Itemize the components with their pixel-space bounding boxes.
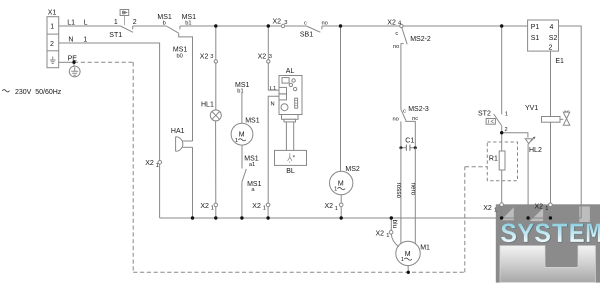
wire X2-1 to bottom rail: [340, 207, 342, 218]
wire AL branch from rail: [267, 26, 269, 60]
node C1 left: [399, 146, 402, 149]
contact MS2-2 blade: [402, 28, 407, 45]
svg-text:1: 1: [494, 207, 497, 213]
thermostat ST2 branch wire: [501, 26, 503, 114]
wire X2-1 to bottom rail: [549, 207, 551, 218]
terminal X2-4 on rail: [400, 24, 403, 27]
svg-text:YV1: YV1: [525, 105, 538, 112]
PE earth electrode: [73, 62, 75, 66]
svg-text:C1: C1: [405, 138, 414, 145]
YV1 valve body: [563, 111, 570, 126]
wire HA1 to bottom rail: [192, 147, 194, 218]
terminal X2-1 HL1 branch: [214, 203, 218, 207]
wire AL N return: [268, 96, 279, 203]
label 230V supply: [2, 90, 9, 92]
wire blu X2-1 to M1: [391, 234, 398, 247]
wire MS2-3 nc branch: [406, 120, 415, 146]
svg-text:3: 3: [269, 54, 272, 60]
wire X2-1 to bottom rail: [267, 207, 269, 218]
svg-text:MS1: MS1: [245, 117, 260, 124]
svg-text:1: 1: [386, 233, 389, 239]
wire R1 to X2-1: [501, 170, 503, 203]
wire MS2-2 to MS2-3: [400, 44, 402, 110]
svg-text:X1: X1: [48, 9, 57, 16]
motor MS2: [330, 171, 353, 194]
terminal block X1: [47, 17, 59, 68]
wire bottom rail: [160, 217, 582, 219]
svg-text:1: 1: [83, 36, 87, 43]
lamp HL1: [210, 110, 221, 121]
node M1 PE: [407, 271, 410, 274]
svg-text:X2: X2: [200, 203, 209, 210]
svg-text:S2: S2: [549, 35, 558, 42]
wire ST2 to node: [501, 127, 503, 133]
svg-text:AL: AL: [286, 68, 295, 75]
svg-text:E1: E1: [555, 58, 564, 65]
node bottom HA1: [191, 216, 194, 219]
svg-text:1: 1: [545, 206, 548, 212]
svg-text:M: M: [338, 181, 344, 188]
watermark triangle 2: [530, 208, 543, 221]
wire E1 4 to right bus: [559, 26, 582, 218]
svg-text:no: no: [322, 20, 328, 26]
R1 dashed enclosure: [487, 142, 517, 181]
terminal X2-1 E1 branch: [549, 203, 553, 207]
svg-text:X2: X2: [145, 160, 154, 167]
wire rail MS1-b1 to X2-3: [180, 25, 282, 27]
wire PE from X1: [59, 61, 74, 63]
svg-text:1: 1: [335, 206, 338, 212]
contact MS2-3 blade: [401, 109, 406, 120]
svg-text:ST1: ST1: [109, 32, 122, 39]
terminal X2-1 M1 branch: [389, 230, 393, 234]
terminal X2-3 on rail: [281, 24, 284, 27]
node PE: [72, 61, 75, 64]
svg-text:b: b: [163, 21, 166, 27]
svg-text:P1: P1: [531, 24, 540, 31]
svg-text:2: 2: [50, 41, 54, 48]
svg-text:no: no: [393, 44, 399, 50]
svg-text:MS2: MS2: [345, 166, 360, 173]
ground symbol in X1 PE cell: [50, 57, 56, 64]
capacitor C1: [401, 147, 406, 149]
node ST2/HL2/R1: [500, 131, 503, 134]
wire MS1-a to bottom rail: [241, 182, 243, 218]
wire node to HL2: [502, 133, 528, 138]
node bottom M1: [390, 216, 393, 219]
watermark big 4 shape: [500, 246, 595, 283]
svg-text:4: 4: [550, 24, 554, 31]
svg-text:M1: M1: [420, 245, 430, 252]
watermark square: [579, 206, 590, 222]
node bottom AL: [266, 216, 269, 219]
wire nero to M1: [414, 148, 416, 244]
svg-text:1: 1: [334, 187, 337, 193]
svg-text:SB1: SB1: [300, 31, 313, 38]
wire X2-1 to bottom rail: [501, 206, 503, 218]
svg-text:HL1: HL1: [201, 102, 214, 109]
svg-text:4: 4: [398, 21, 401, 27]
svg-text:1: 1: [50, 24, 54, 31]
wire MS2 branch from rail: [340, 26, 342, 171]
svg-text:c: c: [304, 21, 307, 27]
solenoid valve YV1 coil: [542, 117, 561, 123]
contact MS1-a1/a blade: [242, 169, 247, 182]
svg-text:N: N: [68, 36, 73, 43]
svg-text:nero: nero: [409, 183, 416, 196]
contact ST2 blade: [494, 114, 503, 127]
thermostat ST2 symbol box: [486, 119, 495, 125]
watermark logo box: [496, 204, 600, 282]
svg-text:S1: S1: [531, 35, 540, 42]
svg-text:MS2-2: MS2-2: [410, 36, 431, 43]
wire HL2 to bottom rail: [527, 144, 529, 218]
wire X2-3 to lamp HL1: [215, 63, 217, 109]
terminal X2-3 HL1 branch: [214, 60, 217, 63]
svg-text:M: M: [405, 251, 411, 258]
contact MS1-b blade: [166, 26, 178, 33]
node rail MS2: [339, 24, 342, 27]
svg-text:MS2-3: MS2-3: [408, 106, 429, 113]
wire YV1 to X2-1: [550, 122, 552, 203]
svg-text:X2: X2: [200, 54, 209, 61]
pushbutton SB1 blade: [306, 26, 320, 32]
burner electrode BL: [275, 150, 307, 165]
svg-text:2: 2: [505, 127, 508, 133]
indicator HL2 symbol: [525, 139, 532, 144]
node bottom HL2: [526, 216, 529, 219]
motor MS1 (timer): [231, 123, 253, 145]
svg-text:X2: X2: [325, 203, 334, 210]
svg-text:X2: X2: [273, 19, 282, 26]
svg-text:1: 1: [505, 112, 508, 118]
node rail HL1: [214, 24, 217, 27]
svg-text:L1: L1: [67, 19, 75, 26]
node bottom MS1: [240, 216, 243, 219]
svg-text:rosso: rosso: [395, 183, 402, 199]
svg-text:X2: X2: [258, 54, 267, 61]
node bottom YV1: [549, 216, 552, 219]
svg-text:X2: X2: [252, 203, 261, 210]
wire rail X2-3 to SB1: [285, 25, 307, 27]
wire HL1 to X2-1: [215, 121, 217, 203]
svg-text:b1: b1: [237, 88, 243, 94]
svg-text:c: c: [403, 108, 406, 114]
svg-text:X2: X2: [535, 203, 544, 210]
svg-text:M: M: [239, 132, 245, 139]
wire AL to BL: [285, 122, 287, 150]
svg-text:1: 1: [211, 206, 214, 212]
wire rosso to M1: [400, 148, 402, 244]
svg-text:c: c: [395, 31, 398, 37]
wire MS1 timer motor feed: [241, 93, 243, 123]
svg-text:ST2: ST2: [478, 110, 491, 117]
watermark triangle 1: [501, 207, 514, 220]
svg-text:b1: b1: [185, 21, 191, 27]
svg-text:HA1: HA1: [171, 128, 185, 135]
svg-text:1: 1: [235, 138, 238, 144]
resistor R1: [499, 151, 505, 170]
svg-text:X2: X2: [376, 230, 385, 237]
svg-text:1: 1: [263, 206, 266, 212]
terminal X2-1 on N wire: [158, 161, 162, 165]
AL plug connector: [282, 115, 299, 120]
svg-text:2: 2: [549, 45, 553, 52]
switch ST1: [120, 10, 129, 16]
svg-text:L1: L1: [270, 86, 276, 92]
wire M1 to PE: [407, 266, 409, 273]
svg-text:3: 3: [284, 20, 287, 26]
svg-text:blu: blu: [391, 220, 398, 229]
node rail ST2: [500, 24, 503, 27]
svg-text:N: N: [271, 102, 275, 108]
svg-text:MS1: MS1: [173, 46, 188, 53]
node bottom MS2: [340, 216, 343, 219]
terminal X2-1 AL branch: [266, 203, 270, 207]
wire MS2 to X2-1: [340, 195, 342, 203]
wire rail ST1 to MS1-b: [133, 25, 167, 27]
svg-text:SYSTEM: SYSTEM: [500, 220, 600, 251]
svg-text:1: 1: [401, 257, 404, 263]
energy regulator E1 box: [528, 20, 559, 51]
svg-text:PE: PE: [68, 55, 78, 62]
wire rail SB1 to X2-4: [322, 25, 400, 27]
wire N from X1: [59, 43, 160, 161]
terminal X2-1 R1 branch: [500, 203, 504, 207]
svg-text:1: 1: [114, 19, 118, 26]
wire N down to bottom rail: [159, 164, 161, 218]
svg-text:L: L: [84, 19, 88, 26]
buzzer HA1: [176, 137, 183, 152]
wire E1 S2/2 down: [550, 51, 552, 116]
svg-text:R1: R1: [489, 156, 498, 163]
wire node to R1: [501, 133, 503, 151]
wire L1 from X1 to ST1: [59, 25, 121, 27]
wire MS2-3 no branch: [400, 121, 402, 146]
YV1 valve link: [560, 118, 563, 120]
svg-text:1: 1: [156, 163, 159, 169]
wire M1 common from bottom rail: [390, 218, 392, 230]
node bottom R1: [500, 216, 503, 219]
svg-text:2: 2: [133, 19, 137, 26]
svg-text:nc: nc: [412, 116, 418, 122]
wire MS1-b0 branch: [179, 33, 193, 141]
terminal X2-1 MS2 branch: [339, 203, 343, 207]
svg-text:X2: X2: [387, 19, 396, 26]
svg-text:BL: BL: [286, 168, 295, 175]
terminal X2-3 AL branch: [267, 60, 270, 63]
ignition module AL: [279, 76, 302, 115]
node rail AL: [267, 24, 270, 27]
wire X2-1 to bottom rail: [215, 207, 217, 218]
svg-text:3: 3: [210, 54, 213, 60]
node bottom HL1: [214, 216, 217, 219]
wire HL1 branch from rail: [215, 26, 217, 60]
svg-text:X2: X2: [483, 205, 492, 212]
wire rail X2-4 to E1: [403, 25, 527, 27]
node C1 right: [414, 146, 417, 149]
svg-text:no: no: [393, 117, 399, 123]
wire X2-3 to AL L1: [268, 63, 279, 90]
svg-text:a1: a1: [249, 162, 255, 168]
svg-text:230V 50/60Hz: 230V 50/60Hz: [15, 89, 62, 96]
svg-text:HL2: HL2: [529, 147, 542, 154]
motor M1: [396, 241, 420, 265]
wire MS1 motor to contact a1: [241, 145, 243, 168]
PE dashed earth line: [74, 62, 487, 272]
svg-text:b0: b0: [177, 54, 183, 60]
